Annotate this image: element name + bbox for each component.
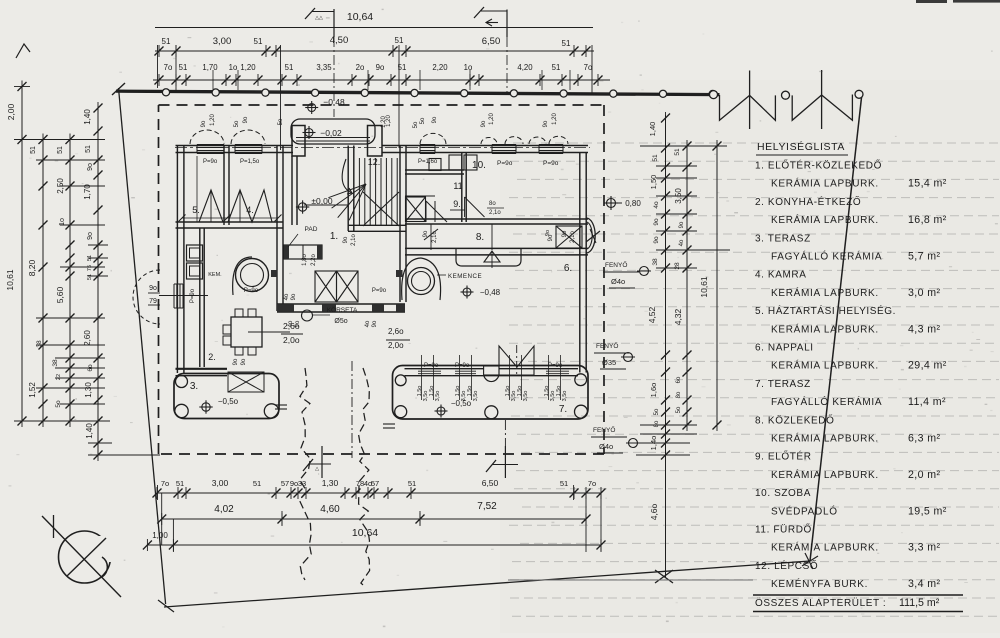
svg-text:KERÁMIA LAPBURK.: KERÁMIA LAPBURK. [771,286,879,299]
svg-text:KERÁMIA LAPBURK.: KERÁMIA LAPBURK. [771,213,879,226]
svg-text:KEMÉNYFA BURK.: KEMÉNYFA BURK. [771,577,868,590]
svg-text:5o: 5o [654,408,660,415]
svg-text:2,50: 2,50 [56,178,65,194]
svg-text:1,20: 1,20 [240,63,256,72]
svg-text:7.: 7. [559,404,567,415]
svg-text:P=9o: P=9o [190,288,196,303]
svg-text:0,80: 0,80 [625,199,641,208]
svg-text:9o: 9o [376,63,385,72]
svg-text:KERÁMIA LAPBURK.: KERÁMIA LAPBURK. [771,322,879,335]
svg-text:1,40: 1,40 [83,109,92,125]
svg-text:51: 51 [560,479,568,488]
svg-text:3,5o: 3,5o [473,391,479,402]
svg-text:1o: 1o [59,218,66,226]
svg-text:8,20: 8,20 [27,259,37,276]
svg-text:1,8o: 1,8o [302,254,308,266]
svg-text:KERÁMIA LAPBURK.: KERÁMIA LAPBURK. [771,177,879,190]
svg-text:9o: 9o [343,236,349,243]
svg-text:1,70: 1,70 [83,184,92,200]
svg-text:51: 51 [176,479,184,488]
svg-text:29,4 m²: 29,4 m² [908,360,947,372]
svg-text:KÖRSETA: KÖRSETA [327,306,358,314]
svg-text:5o: 5o [676,406,682,413]
svg-text:1o: 1o [464,63,473,72]
svg-text:3,00: 3,00 [213,36,232,47]
svg-text:2,00: 2,00 [6,103,16,120]
svg-text:2,6o: 2,6o [388,327,404,336]
svg-text:10.: 10. [472,160,486,171]
svg-text:2o: 2o [356,63,365,72]
svg-text:51: 51 [162,37,171,46]
svg-text:12.: 12. [368,157,381,167]
svg-text:9o: 9o [243,116,249,123]
svg-text:−0,02: −0,02 [320,128,342,138]
svg-text:4o: 4o [284,293,290,300]
svg-text:3,35: 3,35 [316,63,332,72]
svg-text:4o: 4o [288,320,294,327]
svg-text:3,4 m²: 3,4 m² [908,578,940,590]
svg-text:51: 51 [562,39,571,48]
svg-text:10,64: 10,64 [347,11,373,23]
svg-text:57: 57 [281,479,289,488]
svg-text:1,40: 1,40 [648,122,657,137]
svg-text:9o: 9o [548,234,554,241]
svg-text:9o: 9o [201,120,207,127]
svg-text:10,61: 10,61 [699,276,709,298]
svg-text:7o: 7o [588,479,596,488]
svg-text:9o: 9o [562,230,568,237]
svg-text:6o: 6o [676,376,682,383]
svg-text:51: 51 [253,479,261,488]
svg-text:8.: 8. [476,232,484,243]
svg-text:1,52: 1,52 [28,382,37,398]
svg-text:4o: 4o [679,239,685,246]
svg-text:9.: 9. [453,199,461,209]
svg-text:Ø4o: Ø4o [599,442,613,451]
svg-text:6,50: 6,50 [482,478,499,488]
svg-text:3,5o: 3,5o [423,391,429,402]
svg-text:51: 51 [85,145,92,153]
svg-text:5,7 m²: 5,7 m² [908,251,940,263]
svg-text:−0,5o: −0,5o [218,397,239,406]
svg-text:111,5 m²: 111,5 m² [899,597,940,609]
svg-text:FAGYÁLLÓ KERÁMIA: FAGYÁLLÓ KERÁMIA [771,395,882,408]
svg-text:7o: 7o [161,479,169,488]
svg-text:1,50: 1,50 [649,175,658,190]
svg-text:3,5o: 3,5o [511,391,517,402]
svg-text:P=9o: P=9o [497,160,513,167]
svg-text:4o: 4o [365,320,371,327]
svg-text:4o: 4o [653,201,660,209]
svg-text:19,5 m²: 19,5 m² [908,505,947,517]
svg-text:1.: 1. [330,231,338,242]
svg-text:51: 51 [87,255,93,261]
svg-text:8. KÖZLEKEDŐ: 8. KÖZLEKEDŐ [755,412,834,426]
svg-text:4,32: 4,32 [673,308,683,325]
svg-text:5o: 5o [234,120,240,127]
svg-text:1o: 1o [229,63,238,72]
svg-text:4,3 m²: 4,3 m² [908,323,940,335]
svg-text:HELYISÉGLISTA: HELYISÉGLISTA [757,140,845,153]
svg-text:9o: 9o [295,320,301,327]
svg-text:1,20: 1,20 [381,116,387,128]
svg-text:10. SZOBA: 10. SZOBA [755,488,811,499]
svg-text:5.: 5. [192,205,200,215]
svg-text:ÖSSZES ALAPTERÜLET :: ÖSSZES ALAPTERÜLET : [755,597,886,609]
svg-text:75: 75 [87,265,93,271]
svg-text:9o: 9o [372,320,378,327]
svg-text:2,20: 2,20 [432,63,448,72]
svg-text:9. ELŐTÉR: 9. ELŐTÉR [755,449,812,463]
svg-text:8o: 8o [489,201,496,207]
svg-text:2,0o: 2,0o [283,335,300,345]
svg-text:9o: 9o [432,116,438,123]
svg-text:1,00: 1,00 [152,531,168,540]
svg-text:2,1o: 2,1o [489,210,501,216]
svg-text:51: 51 [87,274,93,280]
svg-text:11: 11 [453,181,462,191]
svg-text:1,30: 1,30 [322,478,339,488]
svg-text:5,60: 5,60 [55,286,65,303]
svg-text:57: 57 [371,479,379,488]
svg-text:5. HÁZTARTÁSI HELYISÉG.: 5. HÁZTARTÁSI HELYISÉG. [755,304,896,317]
svg-text:9o: 9o [679,221,685,228]
svg-text:FENYŐ: FENYŐ [596,341,618,350]
svg-text:12. LÉPCSŐ: 12. LÉPCSŐ [755,558,818,572]
svg-text:−0,48: −0,48 [480,288,501,297]
svg-text:8o: 8o [654,420,660,427]
svg-text:P=1,6o: P=1,6o [418,159,438,165]
svg-text:3,5o: 3,5o [550,391,556,402]
svg-text:10,61: 10,61 [5,269,15,291]
svg-text:9o: 9o [149,285,157,292]
svg-text:51: 51 [179,63,188,72]
svg-text:22: 22 [56,374,62,380]
svg-text:4,60: 4,60 [320,504,340,515]
svg-text:51: 51 [408,479,416,488]
svg-text:−0,48: −0,48 [323,97,345,107]
svg-text:2,0 m²: 2,0 m² [908,469,940,481]
svg-text:6,3 m²: 6,3 m² [908,433,940,445]
svg-text:P=9o: P=9o [244,288,259,294]
svg-text:5o: 5o [413,121,419,128]
svg-text:51: 51 [57,146,64,154]
svg-text:5o: 5o [278,118,284,125]
svg-text:9o: 9o [87,163,94,171]
svg-text:3,50: 3,50 [674,188,683,204]
svg-text:15,4 m²: 15,4 m² [908,178,947,190]
svg-text:2,0o: 2,0o [388,341,404,350]
svg-text:28: 28 [674,262,681,270]
svg-text:2.: 2. [208,352,216,362]
svg-text:5o: 5o [55,400,62,408]
svg-text:△△: △△ [315,15,323,21]
svg-text:9o: 9o [543,120,549,127]
svg-text:7,52: 7,52 [477,501,497,512]
svg-text:KEM.: KEM. [208,272,222,278]
svg-text:51: 51 [30,146,37,154]
svg-text:51: 51 [552,63,561,72]
svg-text:9o: 9o [291,293,297,300]
svg-text:1,6o: 1,6o [649,383,658,398]
svg-text:FENYŐ: FENYŐ [605,260,627,269]
svg-text:3. TERASZ: 3. TERASZ [755,233,811,244]
svg-text:9o: 9o [233,358,239,365]
svg-text:KERÁMIA LAPBURK.: KERÁMIA LAPBURK. [771,541,879,554]
svg-text:P=9o: P=9o [543,160,559,167]
svg-text:9o: 9o [653,218,660,226]
svg-text:9o: 9o [653,236,660,244]
svg-text:11,4 m²: 11,4 m² [908,396,946,408]
svg-text:−0,5o: −0,5o [451,399,472,408]
svg-text:FAGYÁLLÓ KERÁMIA: FAGYÁLLÓ KERÁMIA [771,250,882,263]
svg-text:6o: 6o [87,364,94,372]
svg-text:1,20: 1,20 [210,114,216,126]
svg-text:4,6o: 4,6o [649,503,659,520]
svg-text:38: 38 [652,258,659,266]
svg-text:2,60: 2,60 [83,330,92,346]
svg-text:6. NAPPALI: 6. NAPPALI [755,343,814,354]
svg-text:KERÁMIA LAPBURK.: KERÁMIA LAPBURK. [771,468,879,481]
svg-text:4. KAMRA: 4. KAMRA [755,270,806,281]
svg-text:16,8 m²: 16,8 m² [908,214,947,226]
svg-text:51: 51 [674,148,681,156]
svg-text:4,20: 4,20 [517,63,533,72]
svg-text:1,20: 1,20 [489,113,495,125]
svg-text:4.: 4. [246,205,254,215]
svg-text:9o: 9o [241,358,247,365]
svg-text:3,0 m²: 3,0 m² [908,287,940,299]
svg-text:3,5o: 3,5o [562,391,568,402]
svg-text:51: 51 [285,63,294,72]
svg-text:51: 51 [395,36,404,45]
svg-text:3.: 3. [190,381,198,392]
svg-text:38: 38 [52,359,59,367]
svg-text:79: 79 [149,298,157,305]
svg-text:1,4o: 1,4o [649,436,658,451]
svg-text:KEMENCE: KEMENCE [448,273,482,280]
svg-text:1,30: 1,30 [84,382,93,398]
svg-text:1,70: 1,70 [202,63,218,72]
svg-text:6.: 6. [564,263,572,274]
svg-text:1. ELŐTÉR-KÖZLEKEDŐ: 1. ELŐTÉR-KÖZLEKEDŐ [755,158,882,172]
svg-text:51: 51 [652,154,659,162]
svg-text:8o: 8o [676,391,682,398]
svg-text:7o: 7o [164,63,173,72]
svg-text:7. TERASZ: 7. TERASZ [755,379,811,390]
svg-text:9o: 9o [481,120,487,127]
svg-text:6,50: 6,50 [482,36,501,47]
svg-text:P=9o: P=9o [372,288,387,294]
svg-text:11. FÜRDŐ: 11. FÜRDŐ [755,522,812,536]
svg-text:1,20: 1,20 [552,113,558,125]
svg-text:3,3 m²: 3,3 m² [908,542,940,554]
svg-text:KERÁMIA LAPBURK.: KERÁMIA LAPBURK. [771,359,879,372]
svg-text:38: 38 [36,340,43,348]
svg-text:2,1o: 2,1o [570,231,576,243]
svg-text:3,00: 3,00 [212,478,229,488]
svg-text:P=1,5o: P=1,5o [240,159,260,165]
svg-text:1,40: 1,40 [85,423,94,439]
svg-text:2. KONYHA-ÉTKEZŐ: 2. KONYHA-ÉTKEZŐ [755,194,861,208]
svg-text:9o: 9o [87,232,94,240]
svg-text:5o: 5o [420,117,426,124]
svg-text:3,5o: 3,5o [435,391,441,402]
svg-text:51: 51 [254,37,263,46]
svg-text:P=9o: P=9o [203,159,218,165]
svg-text:2,2o: 2,2o [311,254,317,266]
svg-text:4,50: 4,50 [330,35,349,46]
svg-text:Ø5o: Ø5o [334,318,347,325]
svg-text:3,5o: 3,5o [523,391,529,402]
svg-text:2,1o: 2,1o [351,234,357,246]
svg-text:10,64: 10,64 [352,527,378,539]
svg-text:SVÉDPADLÓ: SVÉDPADLÓ [771,504,838,517]
svg-text:KERÁMIA LAPBURK.: KERÁMIA LAPBURK. [771,432,879,445]
svg-text:4,52: 4,52 [647,306,657,323]
svg-text:△: △ [315,466,319,472]
svg-text:PAD: PAD [305,226,318,233]
svg-text:4,02: 4,02 [214,504,234,515]
svg-text:Ø4o: Ø4o [611,277,625,286]
